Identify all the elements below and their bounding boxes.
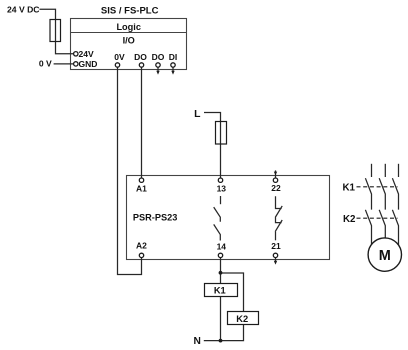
svg-text:GND: GND (79, 59, 98, 69)
svg-text:Logic: Logic (116, 22, 141, 32)
svg-text:A1: A1 (136, 184, 147, 194)
svg-text:A2: A2 (136, 240, 147, 250)
svg-text:SIS / FS-PLC: SIS / FS-PLC (101, 5, 159, 16)
svg-text:0V: 0V (114, 52, 125, 62)
svg-text:24 V DC: 24 V DC (7, 5, 39, 15)
svg-text:N: N (193, 336, 200, 347)
svg-text:K2: K2 (236, 314, 248, 324)
svg-text:I/O: I/O (123, 36, 135, 46)
svg-text:DO: DO (152, 52, 165, 62)
svg-text:K1: K1 (214, 286, 226, 296)
svg-text:L: L (194, 109, 201, 120)
svg-text:DI: DI (169, 52, 178, 62)
svg-text:K2: K2 (343, 214, 356, 225)
svg-text:DO: DO (134, 52, 147, 62)
svg-text:13: 13 (217, 183, 227, 193)
svg-text:0 V: 0 V (39, 58, 52, 68)
svg-text:PSR-PS23: PSR-PS23 (133, 213, 177, 223)
svg-text:14: 14 (217, 242, 227, 252)
svg-text:24V: 24V (79, 49, 94, 59)
svg-text:M: M (379, 248, 391, 264)
svg-text:22: 22 (271, 183, 281, 193)
svg-text:K1: K1 (342, 182, 355, 193)
svg-text:21: 21 (271, 241, 281, 251)
